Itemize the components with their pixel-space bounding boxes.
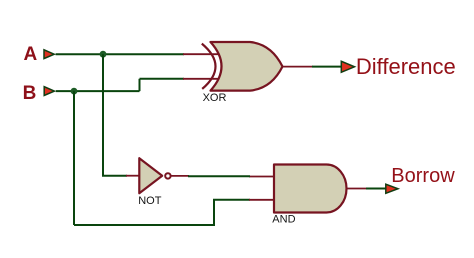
output arrow Borrow xyxy=(386,184,398,193)
wire B vertical jog up xyxy=(139,79,141,91)
pin stub XOR output xyxy=(283,66,314,68)
pin stub AND output xyxy=(346,188,367,190)
net label Difference xyxy=(356,54,456,79)
XOR gate body xyxy=(211,42,283,91)
net label A xyxy=(24,44,38,65)
junction on wire B xyxy=(71,88,78,95)
wire B horizontal xyxy=(56,90,140,92)
junction on wire A xyxy=(100,51,107,58)
pin stub NOT output xyxy=(171,175,189,177)
output arrow Difference xyxy=(341,61,354,72)
svg-text:AND: AND xyxy=(272,214,295,226)
pin stub AND upper input xyxy=(249,176,274,178)
wire A horizontal to XOR xyxy=(56,53,184,55)
AND gate body xyxy=(274,165,347,213)
net label B xyxy=(23,83,37,104)
input arrow A xyxy=(44,50,54,59)
wire AND output to Borrow arrow xyxy=(366,188,386,190)
AND label xyxy=(272,214,295,226)
input arrow B xyxy=(44,87,54,96)
XOR gate back arc xyxy=(202,44,216,89)
XOR label xyxy=(203,92,227,104)
bottom bus wire horizontal xyxy=(74,224,214,226)
svg-text:Borrow: Borrow xyxy=(391,165,455,187)
wire XOR output to Difference arrow xyxy=(312,66,342,68)
net label Borrow xyxy=(391,165,455,187)
wire into AND lower input xyxy=(213,199,250,201)
wire horizontal into NOT xyxy=(102,175,127,177)
NOT gate triangle xyxy=(139,158,162,193)
svg-text:Difference: Difference xyxy=(356,54,456,79)
svg-text:XOR: XOR xyxy=(203,92,227,104)
pin stub XOR input B xyxy=(183,78,220,80)
NOT label xyxy=(138,195,162,207)
NOT gate bubble xyxy=(165,173,170,178)
wire from junction A down to NOT level xyxy=(102,54,104,176)
wire from junction B down to bottom bus xyxy=(73,91,75,225)
svg-text:A: A xyxy=(24,44,38,65)
pin stub into NOT input xyxy=(126,175,140,177)
pin stub XOR input A xyxy=(183,53,220,55)
svg-text:B: B xyxy=(23,83,37,104)
svg-text:NOT: NOT xyxy=(138,195,162,207)
pin stub AND lower input xyxy=(249,199,274,201)
wire NOT output to AND upper input xyxy=(188,175,250,177)
wire B to XOR lower input xyxy=(140,78,185,80)
bottom bus wire vertical up xyxy=(213,200,215,226)
